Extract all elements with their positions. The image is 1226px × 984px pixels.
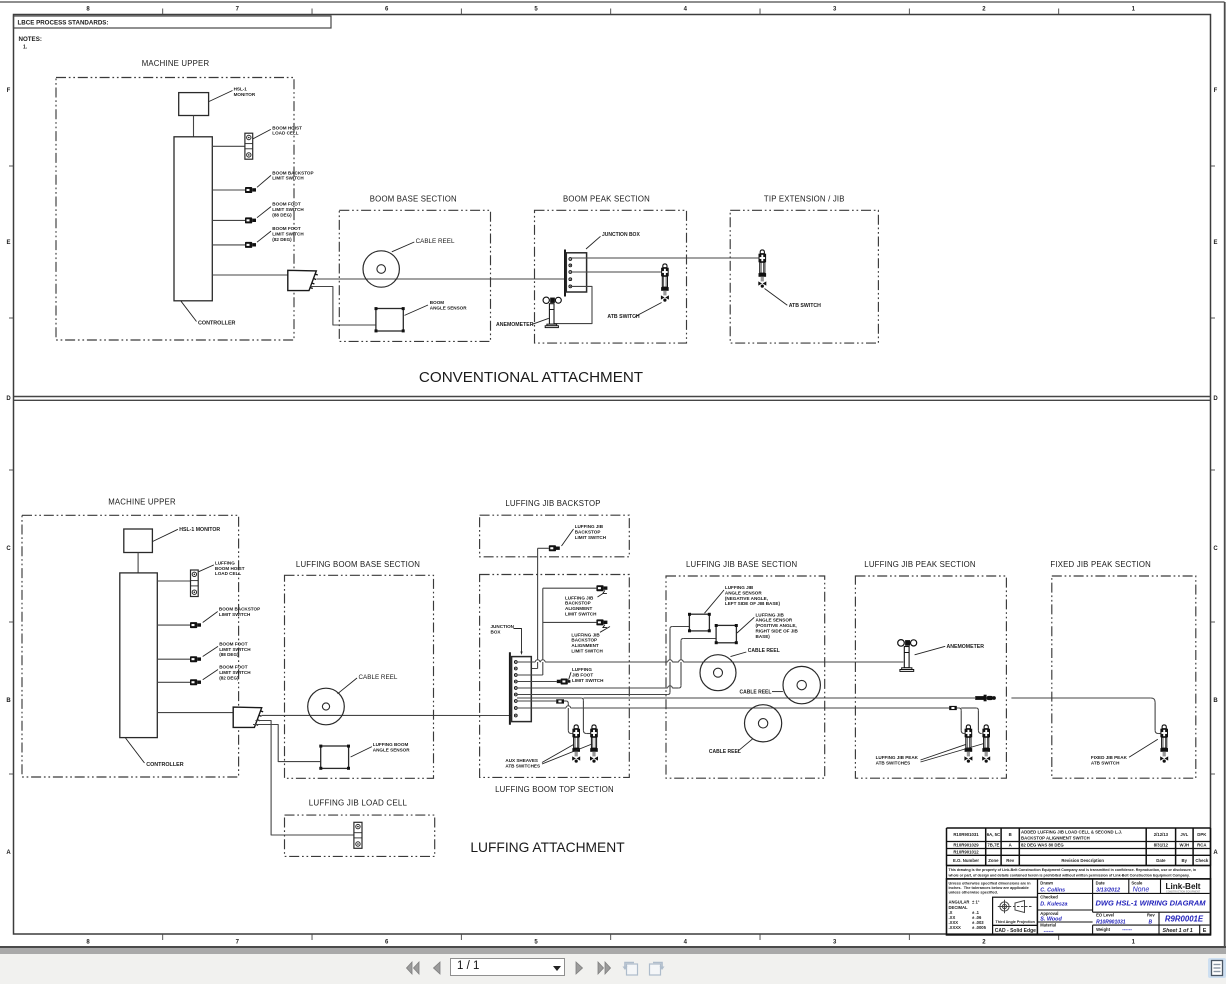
svg-text:(POSITIVE ANGLE,: (POSITIVE ANGLE, bbox=[756, 623, 797, 628]
title block eo level cell bbox=[1096, 913, 1155, 926]
svg-text:HSL-1: HSL-1 bbox=[234, 87, 248, 92]
svg-text:LUFFING BOOM BASE SECTION: LUFFING BOOM BASE SECTION bbox=[296, 560, 420, 569]
svg-text:ALIGNMENT: ALIGNMENT bbox=[565, 606, 592, 611]
svg-text:4: 4 bbox=[684, 940, 688, 946]
svg-text:ADDED LUFFING JIB LOAD CELL &: ADDED LUFFING JIB LOAD CELL & SECOND L.J… bbox=[1021, 830, 1122, 835]
junction box label (luffing) bbox=[491, 624, 523, 655]
main wire connector to junction box (luffing) bbox=[262, 714, 516, 716]
HSL-1 monitor (luffing) bbox=[124, 529, 153, 553]
svg-text:LUFFING JIB: LUFFING JIB bbox=[571, 632, 600, 637]
boom foot limit switch 88 deg (luffing) bbox=[190, 656, 201, 662]
svg-text:ATB SWITCH: ATB SWITCH bbox=[789, 303, 821, 309]
svg-text:A: A bbox=[6, 850, 11, 856]
svg-text:BOOM: BOOM bbox=[430, 300, 444, 305]
svg-text:LUFFING: LUFFING bbox=[572, 667, 592, 672]
svg-text:BACKSTOP: BACKSTOP bbox=[571, 638, 597, 643]
svg-text:LIMIT SWITCH: LIMIT SWITCH bbox=[219, 670, 251, 675]
svg-text:5: 5 bbox=[534, 7, 538, 13]
title block date cell bbox=[1093, 879, 1120, 894]
third angle projection box bbox=[993, 897, 1038, 925]
svg-text:LUFFING ATTACHMENT: LUFFING ATTACHMENT bbox=[470, 840, 625, 855]
luffing boom angle sensor label bbox=[351, 742, 411, 757]
wire junction t3 to alignment switches vertical bbox=[517, 588, 543, 675]
svg-text:D. Kulesza: D. Kulesza bbox=[1040, 901, 1067, 907]
wire controller to boom foot limit switch 82 bbox=[212, 244, 245, 246]
svg-text:Material: Material bbox=[1040, 923, 1056, 928]
svg-text:± 1°: ± 1° bbox=[972, 900, 980, 905]
wire controller to boom backstop limit switch bbox=[212, 189, 245, 191]
wire monitor to controller bbox=[193, 116, 195, 137]
controller (luffing) bbox=[120, 573, 158, 738]
svg-text:LUFFING JIB: LUFFING JIB bbox=[565, 595, 594, 600]
zone ticks bottom bbox=[163, 934, 1059, 940]
boom hoist load cell label bbox=[253, 125, 302, 139]
luffing jib peak section box bbox=[855, 576, 1006, 778]
svg-text:Weight: Weight bbox=[1096, 927, 1110, 932]
tip extension jib box bbox=[730, 210, 878, 343]
cable reel (luffing boom base) bbox=[308, 688, 345, 725]
svg-text:7: 7 bbox=[236, 7, 240, 13]
page bottom edge line bbox=[0, 946, 1226, 948]
svg-text:LUFFING JIB BACKSTOP: LUFFING JIB BACKSTOP bbox=[505, 499, 600, 508]
svg-text:BOOM HOIST: BOOM HOIST bbox=[215, 566, 245, 571]
wire backstop limit switch to junction bbox=[517, 548, 549, 668]
connector plug (conventional) bbox=[288, 270, 317, 290]
inline connector on t7 wire bbox=[556, 699, 564, 703]
boom foot limit switch 82 deg (conventional) bbox=[245, 242, 256, 248]
title block material cell bbox=[1040, 923, 1056, 935]
wire hop bumps bbox=[535, 660, 683, 662]
boom foot limit switch 82 deg (luffing) bbox=[190, 679, 201, 685]
svg-text:A: A bbox=[1009, 843, 1012, 848]
title block sheet cell bbox=[1159, 925, 1193, 935]
svg-text:LUFFING JIB BASE SECTION: LUFFING JIB BASE SECTION bbox=[686, 560, 797, 569]
svg-text:C. Collins: C. Collins bbox=[1040, 887, 1065, 893]
svg-text:2/12/13: 2/12/13 bbox=[1154, 832, 1169, 837]
svg-text:EO Level: EO Level bbox=[1096, 913, 1114, 918]
svg-text:BOOM PEAK SECTION: BOOM PEAK SECTION bbox=[563, 195, 650, 204]
svg-text:Zone: Zone bbox=[988, 858, 999, 863]
svg-text:C: C bbox=[6, 546, 11, 552]
svg-text:CABLE REEL: CABLE REEL bbox=[740, 689, 772, 695]
svg-text:unless otherwise specified.: unless otherwise specified. bbox=[949, 891, 998, 895]
svg-text:BACKSTOP: BACKSTOP bbox=[575, 529, 601, 534]
svg-text:BOOM BACKSTOP: BOOM BACKSTOP bbox=[272, 170, 313, 175]
wire junction t5 to jib angle sensor 2 bbox=[517, 639, 716, 689]
svg-text:F: F bbox=[1214, 88, 1218, 94]
svg-text:MONITOR: MONITOR bbox=[234, 92, 256, 97]
svg-text:Scale: Scale bbox=[1131, 880, 1143, 885]
svg-text:8: 8 bbox=[86, 7, 90, 13]
title block sheet size cell bbox=[1200, 925, 1207, 935]
svg-text:BOOM BASE SECTION: BOOM BASE SECTION bbox=[370, 195, 457, 204]
svg-text:ATB SWITCHES: ATB SWITCHES bbox=[876, 761, 911, 766]
HSL-1 monitor (conventional) bbox=[179, 93, 209, 116]
svg-text:3: 3 bbox=[833, 7, 837, 13]
svg-text:CONSTRUCTION EQUIPMENT: CONSTRUCTION EQUIPMENT bbox=[1166, 890, 1201, 893]
sheet outer right edge line bbox=[1224, 2, 1226, 947]
luffing jib peak atb switch right bbox=[982, 725, 990, 763]
svg-text:82 DEG WAS 80 DEG: 82 DEG WAS 80 DEG bbox=[1021, 843, 1064, 848]
svg-text:B: B bbox=[1149, 919, 1153, 925]
toolbar previous page button bbox=[430, 960, 444, 976]
svg-text:R10R901031: R10R901031 bbox=[1096, 919, 1126, 925]
svg-text:MACHINE UPPER: MACHINE UPPER bbox=[108, 498, 176, 507]
drawing number R9R0001E bbox=[1159, 912, 1204, 925]
notes text bbox=[19, 36, 42, 51]
svg-text:LOAD CELL: LOAD CELL bbox=[272, 131, 298, 136]
zone ticks right bbox=[1211, 166, 1216, 774]
svg-text:7: 7 bbox=[236, 940, 240, 946]
wire controller to connector (luffing) bbox=[157, 712, 233, 714]
svg-text:3: 3 bbox=[833, 940, 837, 946]
svg-text:Sheet 1 of 1: Sheet 1 of 1 bbox=[1163, 928, 1193, 934]
svg-text:B: B bbox=[1009, 832, 1012, 837]
title block drawn cell bbox=[1038, 879, 1210, 935]
svg-text:By: By bbox=[1182, 858, 1188, 863]
aux sheaves atb switch left bbox=[572, 725, 580, 763]
svg-text:ANGLE SENSOR: ANGLE SENSOR bbox=[373, 747, 410, 752]
luffing boom hoist load cell label bbox=[199, 560, 245, 576]
svg-text:ATB SWITCHES: ATB SWITCHES bbox=[505, 763, 540, 768]
luffing jib backstop box bbox=[480, 515, 630, 557]
luffing jib angle sensor 2 (positive) bbox=[716, 625, 736, 642]
svg-text:LEFT SIDE OF JIB BASE): LEFT SIDE OF JIB BASE) bbox=[725, 601, 781, 606]
dwg title text bbox=[1093, 893, 1210, 912]
luffing jib foot limit switch label bbox=[569, 667, 604, 683]
svg-text:.XXXX: .XXXX bbox=[949, 925, 962, 930]
svg-text:LUFFING BOOM TOP SECTION: LUFFING BOOM TOP SECTION bbox=[495, 785, 614, 794]
wire junction to tip extension atb switch bbox=[572, 257, 759, 259]
inline mating connector on t7b wire bbox=[975, 695, 996, 702]
controller label bbox=[181, 301, 236, 326]
svg-text:LUFFING JIB LOAD CELL: LUFFING JIB LOAD CELL bbox=[309, 799, 408, 808]
cable reel label (boom base) bbox=[392, 238, 455, 252]
svg-text:1: 1 bbox=[1132, 940, 1136, 946]
svg-text:FIXED JIB PEAK: FIXED JIB PEAK bbox=[1091, 755, 1128, 760]
svg-text:LUFFING: LUFFING bbox=[215, 560, 235, 565]
svg-text:DWG HSL-1 WIRING DIAGRAM: DWG HSL-1 WIRING DIAGRAM bbox=[1096, 899, 1207, 908]
svg-text:ANGULAR: ANGULAR bbox=[949, 900, 970, 905]
svg-text:LUFFING JIB: LUFFING JIB bbox=[756, 612, 785, 617]
zone letters right bbox=[1213, 88, 1218, 856]
svg-text:LIMIT SWITCH: LIMIT SWITCH bbox=[272, 176, 304, 181]
machine upper box (luffing) bbox=[22, 515, 239, 777]
svg-text:inches. The tolerances below: inches. The tolerances below are applica… bbox=[949, 886, 1029, 890]
cad solid edge cell bbox=[993, 925, 1038, 935]
svg-text:------: ------ bbox=[1122, 927, 1132, 933]
cable reel 3 (jib base) bbox=[745, 705, 782, 742]
svg-text:BOOM FOOT: BOOM FOOT bbox=[219, 665, 248, 670]
svg-text:RIGHT SIDE OF JIB: RIGHT SIDE OF JIB bbox=[756, 629, 799, 634]
HSL-1 monitor label bbox=[209, 87, 256, 102]
svg-text:ANGLE SENSOR: ANGLE SENSOR bbox=[430, 305, 467, 310]
zone ticks left bbox=[9, 166, 14, 774]
sheet outer top edge line bbox=[0, 1, 1225, 3]
luffing jib peak atb switches label bbox=[876, 744, 984, 766]
svg-text:LOAD CELL: LOAD CELL bbox=[215, 571, 241, 576]
svg-text:TIP EXTENSION / JIB: TIP EXTENSION / JIB bbox=[764, 195, 845, 204]
wire junction t1 to anemometer (long) bbox=[517, 661, 903, 663]
cable reel 1 (jib base) bbox=[700, 655, 736, 691]
boom peak section box bbox=[535, 210, 687, 343]
luffing boom top section box bbox=[480, 575, 630, 778]
svg-text:8/31/12: 8/31/12 bbox=[1154, 843, 1169, 848]
wire junction t4 to luffing jib foot limit switch bbox=[517, 681, 557, 683]
svg-text:5: 5 bbox=[534, 940, 538, 946]
aux sheaves atb switches label bbox=[505, 744, 592, 768]
svg-text:Third Angle Projection: Third Angle Projection bbox=[996, 920, 1036, 924]
svg-text:Drawn: Drawn bbox=[1040, 880, 1053, 885]
svg-text:JUNCTION: JUNCTION bbox=[491, 624, 515, 629]
boom angle sensor label bbox=[405, 300, 468, 315]
luffing boom angle sensor bbox=[321, 746, 349, 768]
junction box label (conventional) bbox=[586, 232, 640, 249]
svg-text:8: 8 bbox=[86, 940, 90, 946]
svg-text:WJH: WJH bbox=[1180, 843, 1190, 848]
luffing jib load cell box bbox=[285, 815, 435, 856]
boom backstop limit switch label bbox=[257, 170, 314, 187]
svg-text:Rev: Rev bbox=[1147, 913, 1155, 918]
svg-text:4: 4 bbox=[684, 7, 688, 13]
wire t8 drop to left luffing jib peak atb switch bbox=[959, 708, 976, 734]
svg-text:LIMIT SWITCH: LIMIT SWITCH bbox=[575, 535, 607, 540]
wire t8 drop to right luffing jib peak atb switch bbox=[976, 708, 982, 734]
svg-text:Rev: Rev bbox=[1006, 858, 1014, 863]
svg-text:MACHINE UPPER: MACHINE UPPER bbox=[142, 59, 210, 68]
svg-text:BOOM FOOT: BOOM FOOT bbox=[219, 641, 248, 646]
alignment switch 1 stub wire bbox=[543, 587, 597, 589]
boom foot limit switch 82 label (luffing) bbox=[203, 665, 252, 681]
svg-text:LIMIT SWITCH: LIMIT SWITCH bbox=[219, 647, 251, 652]
fixed jib peak section box bbox=[1052, 576, 1196, 778]
LBCE process standards box bbox=[14, 16, 332, 28]
junction box (luffing) bbox=[510, 652, 531, 725]
svg-text:LUFFING JIB: LUFFING JIB bbox=[725, 585, 754, 590]
svg-text:BOOM FOOT: BOOM FOOT bbox=[272, 226, 301, 231]
luffing jib backstop alignment limit switch 2 bbox=[596, 619, 607, 627]
svg-text:BOOM BACKSTOP: BOOM BACKSTOP bbox=[219, 606, 260, 611]
svg-text:7B,7E: 7B,7E bbox=[987, 843, 999, 848]
svg-text:B: B bbox=[1213, 698, 1218, 704]
svg-text:JUNCTION BOX: JUNCTION BOX bbox=[602, 232, 640, 238]
svg-text:JIB FOOT: JIB FOOT bbox=[572, 673, 593, 678]
inline connector glyph on t8 wire bbox=[949, 706, 957, 710]
wire connector to boom angle sensor bbox=[311, 287, 376, 326]
main wire connector to junction box (conventional) bbox=[317, 278, 571, 280]
svg-text:JVL: JVL bbox=[1180, 832, 1188, 837]
svg-text:E: E bbox=[6, 240, 10, 246]
zone ticks top bbox=[163, 9, 1059, 15]
svg-text:BASE): BASE) bbox=[756, 634, 771, 639]
cable reel 2 (jib base) bbox=[783, 666, 820, 703]
machine upper box (conventional) bbox=[56, 78, 294, 341]
svg-text:A: A bbox=[1213, 850, 1218, 856]
boom foot limit switch 88 deg (conventional) bbox=[245, 217, 256, 223]
svg-text:D: D bbox=[6, 396, 11, 402]
svg-text:BACKSTOP ALIGNMENT SWITCH: BACKSTOP ALIGNMENT SWITCH bbox=[1021, 835, 1090, 840]
alignment switch 2 stub wire bbox=[543, 621, 597, 623]
controller label (luffing) bbox=[126, 738, 184, 768]
svg-text:R9R0001E: R9R0001E bbox=[1165, 915, 1204, 924]
title block weight cell bbox=[1093, 925, 1210, 935]
luffing jib backstop limit switch bbox=[549, 545, 560, 551]
wire controller to luffing boom hoist load cell bbox=[157, 580, 190, 582]
zone letters left bbox=[6, 88, 11, 856]
wire junction to anemometer (conventional) bbox=[554, 286, 592, 323]
luffing jib peak atb switch left bbox=[964, 725, 972, 763]
svg-text:None: None bbox=[1133, 887, 1150, 894]
svg-text:CABLE REEL: CABLE REEL bbox=[416, 238, 455, 245]
svg-text:E.O. Number: E.O. Number bbox=[953, 858, 979, 863]
svg-text:This drawing is the property o: This drawing is the property of Link-Bel… bbox=[949, 868, 1197, 872]
svg-text:BOX: BOX bbox=[491, 629, 502, 634]
boom backstop limit switch label (luffing) bbox=[203, 606, 260, 622]
svg-text:FIXED JIB PEAK SECTION: FIXED JIB PEAK SECTION bbox=[1050, 560, 1151, 569]
svg-text:(82 DEG): (82 DEG) bbox=[272, 237, 292, 242]
atb switch (tip extension) bbox=[758, 250, 766, 288]
svg-text:AUX SHEAVES: AUX SHEAVES bbox=[505, 758, 538, 763]
anemometer (luffing jib peak) bbox=[898, 640, 917, 672]
cable reel 3 label bbox=[709, 739, 753, 755]
luffing jib angle sensor 1 label bbox=[705, 585, 781, 613]
svg-text:R10R901029: R10R901029 bbox=[953, 843, 979, 848]
svg-text:ALIGNMENT: ALIGNMENT bbox=[571, 643, 598, 648]
luffing boom hoist load cell bbox=[191, 570, 199, 597]
cable reel label (luffing boom base) bbox=[338, 674, 398, 694]
svg-text:LIMIT SWITCH: LIMIT SWITCH bbox=[272, 232, 304, 237]
atb switch label (tip extension) bbox=[765, 289, 822, 309]
svg-text:Check: Check bbox=[1195, 858, 1209, 863]
wire connector down to luffing jib load cell bbox=[256, 721, 354, 836]
luffing jib load cell bbox=[354, 822, 362, 848]
svg-text:(82 DEG): (82 DEG) bbox=[219, 675, 239, 680]
title block bbox=[947, 828, 1211, 866]
alignment switch 2 label bbox=[571, 627, 610, 654]
svg-text:6A, 5C: 6A, 5C bbox=[987, 832, 1000, 837]
svg-text:CABLE REEL: CABLE REEL bbox=[748, 648, 780, 654]
svg-text:(88 DEG): (88 DEG) bbox=[272, 212, 292, 217]
wire controller to boom foot limit switch 88 (luffing) bbox=[157, 658, 190, 660]
svg-text:ANGLE SENSOR: ANGLE SENSOR bbox=[756, 618, 793, 623]
svg-text:whole or part, of design and d: whole or part, of design and details con… bbox=[948, 874, 1190, 878]
wire t7b continues to fixed jib peak atb switch bbox=[1011, 698, 1160, 734]
wire junction t8 to luffing jib peak atb switches bbox=[517, 706, 959, 708]
sidebar toggle button bottom right bbox=[1208, 958, 1226, 978]
luffing jib base section box bbox=[666, 576, 825, 778]
svg-text:(NEGATIVE ANGLE,: (NEGATIVE ANGLE, bbox=[725, 596, 768, 601]
toolbar first page button bbox=[404, 960, 422, 976]
boom base section box bbox=[339, 210, 490, 341]
svg-text:ANEMOMETER: ANEMOMETER bbox=[947, 644, 985, 650]
toolbar next view button bbox=[646, 958, 666, 978]
wire monitor to controller (luffing) bbox=[137, 553, 139, 573]
wire controller to boom foot limit switch 88 bbox=[212, 219, 245, 221]
svg-text:Unless otherwise specified dim: Unless otherwise specified dimensions ar… bbox=[949, 882, 1032, 886]
svg-text:3/13/2012: 3/13/2012 bbox=[1096, 887, 1120, 893]
title block approval cell bbox=[1038, 911, 1093, 923]
anemometer (conventional) bbox=[543, 297, 561, 328]
luffing jib angle sensor 2 label bbox=[737, 612, 799, 639]
zone numbers top bbox=[86, 7, 1135, 13]
cable reel 1 label bbox=[731, 648, 780, 656]
atb switch label (boom peak) bbox=[607, 303, 661, 321]
wire t7b to right aux atb switch and luffing jib peak bbox=[517, 698, 975, 734]
wire controller to boom backstop limit switch (luffing) bbox=[157, 624, 190, 626]
svg-text:CABLE REEL: CABLE REEL bbox=[359, 674, 398, 681]
boom hoist load cell bbox=[245, 133, 253, 159]
luffing boom base section box bbox=[285, 575, 434, 778]
svg-text:BACKSTOP: BACKSTOP bbox=[565, 601, 591, 606]
svg-text:Revision Description: Revision Description bbox=[1061, 858, 1104, 863]
svg-text:LBCE PROCESS STANDARDS:: LBCE PROCESS STANDARDS: bbox=[18, 20, 109, 27]
svg-text:------: ------ bbox=[1044, 928, 1054, 934]
junction box (conventional) bbox=[565, 250, 587, 297]
wire junction to boom peak atb switch bbox=[572, 271, 662, 273]
svg-text:ATB SWITCH: ATB SWITCH bbox=[607, 314, 639, 320]
connector plug (luffing) bbox=[233, 707, 262, 727]
atb switch (boom peak) bbox=[661, 264, 669, 302]
svg-text:E: E bbox=[1213, 240, 1217, 246]
svg-text:HSL-1 MONITOR: HSL-1 MONITOR bbox=[179, 527, 220, 533]
boom backstop limit switch (luffing) bbox=[190, 622, 201, 628]
svg-text:2: 2 bbox=[982, 940, 986, 946]
anemometer label (luffing jib peak) bbox=[915, 644, 985, 655]
wire junction t7 through connector to left aux atb switch bbox=[517, 701, 572, 734]
boom foot limit switch 88 label (luffing) bbox=[203, 641, 252, 657]
wire controller to boom hoist load cell bbox=[212, 145, 245, 147]
svg-text:6: 6 bbox=[385, 940, 389, 946]
svg-text:LUFFING JIB PEAK: LUFFING JIB PEAK bbox=[876, 755, 919, 760]
section divider double line bbox=[14, 397, 1211, 401]
svg-text:B: B bbox=[6, 698, 11, 704]
svg-text:NOTES:: NOTES: bbox=[19, 36, 42, 43]
toolbar last page button bbox=[595, 960, 613, 976]
svg-text:LIMIT SWITCH: LIMIT SWITCH bbox=[272, 207, 304, 212]
boom angle sensor bbox=[376, 309, 403, 332]
svg-text:D: D bbox=[1213, 396, 1218, 402]
link-belt logo bbox=[1161, 879, 1201, 894]
toolbar background bbox=[0, 954, 1226, 984]
boom foot limit switch 88 label bbox=[257, 202, 304, 218]
boom backstop limit switch (conventional) bbox=[245, 187, 256, 193]
svg-text:LIMIT SWITCH: LIMIT SWITCH bbox=[571, 649, 603, 654]
svg-text:Date: Date bbox=[1096, 880, 1106, 885]
controller (conventional) bbox=[174, 137, 212, 301]
svg-text:ANEMOMETER: ANEMOMETER bbox=[496, 322, 534, 328]
svg-text:BOOM FOOT: BOOM FOOT bbox=[272, 202, 301, 207]
toolbar previous view button bbox=[621, 958, 641, 978]
svg-text:LUFFING JIB PEAK SECTION: LUFFING JIB PEAK SECTION bbox=[864, 560, 975, 569]
svg-text:Approval: Approval bbox=[1040, 911, 1058, 916]
svg-text:E: E bbox=[1203, 928, 1207, 934]
svg-text:LIMIT SWITCH: LIMIT SWITCH bbox=[565, 612, 597, 617]
title block scale cell bbox=[1129, 879, 1150, 894]
aux sheaves atb switch right bbox=[590, 725, 598, 763]
wire connector down to luffing boom angle sensor bbox=[253, 725, 321, 762]
anemometer label (conventional) bbox=[496, 318, 549, 328]
svg-text:LUFFING BOOM: LUFFING BOOM bbox=[373, 742, 409, 747]
svg-text:RCA: RCA bbox=[1197, 843, 1206, 848]
svg-text:1: 1 bbox=[1132, 7, 1136, 13]
luffing jib backstop alignment limit switch 1 bbox=[596, 585, 607, 593]
svg-text:CABLE REEL: CABLE REEL bbox=[709, 749, 741, 755]
svg-text:F: F bbox=[7, 88, 11, 94]
luffing jib foot limit switch bbox=[557, 679, 571, 685]
boom foot limit switch 82 label bbox=[257, 226, 304, 242]
svg-text:BOOM HOIST: BOOM HOIST bbox=[272, 125, 302, 130]
svg-text:C: C bbox=[1213, 546, 1218, 552]
